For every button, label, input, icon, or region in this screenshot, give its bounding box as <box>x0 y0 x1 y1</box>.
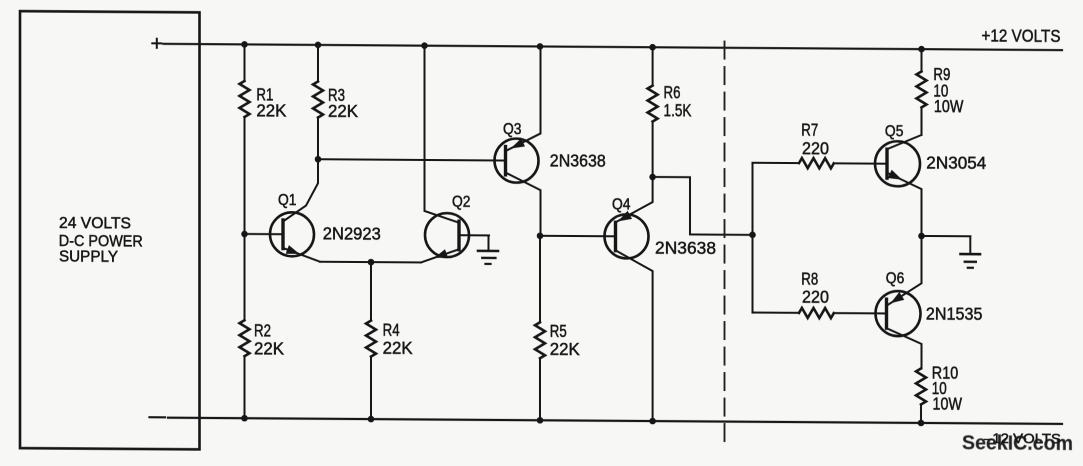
svg-text:Q4: Q4 <box>612 196 631 213</box>
label R9 10 10W <box>933 64 963 116</box>
label R6 1.5K <box>664 82 692 120</box>
junction (752.5,229.6) <box>749 232 756 239</box>
resistor R10 10 10W <box>916 368 926 423</box>
junction (244.5,416.5) <box>241 415 248 422</box>
label R10 10 10W <box>932 363 963 414</box>
junction (424.5,42.7) <box>421 42 428 49</box>
wire: Q5/Q6 emitter node to ground <box>922 235 971 237</box>
resistor R3 22K <box>313 45 323 159</box>
resistor R9 10 10W <box>917 49 927 135</box>
junction (244.5,232.3) <box>241 231 248 238</box>
power supply box <box>20 11 200 449</box>
svg-text:22K: 22K <box>550 339 580 359</box>
label 24 VOLTS D-C POWER SUPPLY <box>59 215 143 266</box>
wire: bottom rail <box>168 418 1062 424</box>
svg-text:22K: 22K <box>328 101 358 121</box>
wire: Q2 base to ground <box>459 234 489 236</box>
junction (652.6,42.7) <box>649 44 656 51</box>
transistor Q4 <box>605 177 653 421</box>
label R3 22K <box>328 85 358 121</box>
junction (652.6,172.4) <box>649 174 656 181</box>
transistor Q2 <box>421 46 469 263</box>
ground (output) <box>961 236 981 268</box>
transistor Q1 <box>270 159 320 262</box>
svg-text:2N2923: 2N2923 <box>323 223 381 243</box>
svg-text:10W: 10W <box>934 96 964 116</box>
junction (921,416.5) <box>918 420 925 427</box>
label R4 22K <box>383 320 413 358</box>
wire: top rail <box>164 44 1063 50</box>
svg-text:22K: 22K <box>383 338 413 358</box>
svg-text:22K: 22K <box>256 100 286 120</box>
svg-text:22K: 22K <box>254 338 284 358</box>
svg-text:2N1535: 2N1535 <box>926 304 983 324</box>
svg-text:10W: 10W <box>933 394 963 414</box>
svg-text:Q5: Q5 <box>885 123 904 140</box>
wire: Q1-Q2 emitter coupling <box>320 261 421 264</box>
svg-text:2N3638: 2N3638 <box>550 150 606 170</box>
wire: vertical between R7 and R8 <box>752 163 754 313</box>
wire: Q1 base lead <box>245 233 284 235</box>
svg-text:Q2: Q2 <box>452 194 471 211</box>
label R7 220 <box>801 120 829 159</box>
junction (652.6,416.5) <box>649 418 656 425</box>
junction (540,416.5) <box>537 417 544 424</box>
junction (540,42.7) <box>537 43 544 50</box>
svg-text:–12 VOLTS: –12 VOLTS <box>984 430 1061 447</box>
svg-text:220: 220 <box>802 287 829 307</box>
junction (921.5,229.5) <box>918 233 925 240</box>
plus terminal <box>152 39 161 48</box>
transistor Q6 <box>876 236 922 369</box>
svg-text:Q3: Q3 <box>503 121 522 138</box>
resistor R6 1.5K <box>648 47 658 177</box>
svg-text:220: 220 <box>802 138 829 158</box>
svg-text:1.5K: 1.5K <box>664 100 692 120</box>
junction (371,416.5) <box>368 416 375 423</box>
transistor Q5 <box>875 107 922 236</box>
svg-text:2N3054: 2N3054 <box>926 153 986 173</box>
transistor Q3 <box>495 46 541 236</box>
resistor R8 220 <box>753 308 887 319</box>
svg-text:+12 VOLTS: +12 VOLTS <box>982 25 1061 46</box>
svg-text:Q1: Q1 <box>278 192 297 209</box>
wire: R3/Q1 collector node to Q3 base <box>318 159 506 160</box>
svg-text:24 VOLTS: 24 VOLTS <box>59 215 131 233</box>
svg-text:SUPPLY: SUPPLY <box>59 249 118 266</box>
junction (371,259.5) <box>368 259 375 266</box>
wire: Q3 collector node to Q4 base <box>540 235 616 238</box>
svg-text:2N3638: 2N3638 <box>655 238 716 258</box>
junction (921.5,42.7) <box>918 46 925 53</box>
resistor R4 22K <box>366 262 376 419</box>
resistor R5 22K <box>535 236 545 421</box>
svg-text:R7: R7 <box>801 120 818 140</box>
label R2 22K <box>254 320 284 358</box>
svg-text:Q6: Q6 <box>886 270 905 287</box>
dashed separator line <box>724 42 726 442</box>
minus terminal <box>150 416 166 418</box>
label R5 22K <box>550 321 580 359</box>
junction (540,232) <box>537 232 544 239</box>
wire: R6/Q4 emitter node to driver bases <box>653 177 753 235</box>
label R8 220 <box>801 269 829 307</box>
junction (244.5,42.7) <box>241 41 248 48</box>
junction (318,157) <box>315 156 322 163</box>
resistor R1 22K <box>240 44 250 234</box>
resistor R7 220 <box>753 158 888 169</box>
resistor R2 22K <box>240 234 250 418</box>
label R1 22K <box>256 84 286 120</box>
ground (Q2 base) <box>478 235 498 264</box>
junction (318,42.7) <box>315 42 322 49</box>
